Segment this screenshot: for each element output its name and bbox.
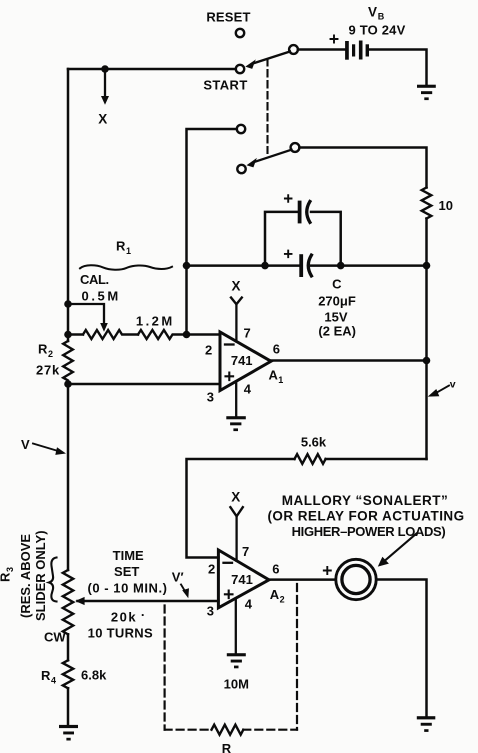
switch S1a RESET contact terminal — [236, 29, 244, 37]
svg-text:4: 4 — [51, 676, 56, 686]
switch S1a pivot terminal — [289, 45, 298, 54]
switch S1b upper contact terminal — [237, 125, 245, 133]
svg-text:1: 1 — [278, 375, 283, 385]
junction dot bus left — [183, 262, 191, 270]
op-amp A1 minus sign — [225, 343, 234, 345]
label SLIDER ONLY) (rotated) — [33, 530, 48, 621]
arrow V to left rail — [33, 444, 66, 455]
resistor R (feedback) — [212, 725, 244, 735]
arrow V' to pin3 wire — [181, 585, 189, 599]
junction dot R1 / pin2 — [183, 331, 191, 339]
svg-text:X: X — [98, 112, 107, 127]
pin label 4 (A1) — [244, 381, 252, 396]
svg-text:V: V — [368, 5, 377, 20]
switch S1b arm — [247, 150, 292, 168]
label VB 9 TO 24V — [348, 5, 405, 38]
svg-text:R: R — [41, 668, 51, 683]
svg-text:X: X — [231, 279, 240, 294]
svg-text:R: R — [38, 342, 48, 357]
label V annotation (left rail) — [21, 437, 30, 452]
label CAL. 0.5M — [80, 272, 121, 303]
wire C bus — [187, 264, 427, 267]
svg-text:1: 1 — [126, 246, 131, 256]
svg-text:X: X — [231, 490, 240, 505]
label R1 — [116, 239, 131, 257]
label TIME SET (0 - 10 MIN.) — [87, 548, 167, 596]
wire A2 pin 4 to ground — [235, 599, 237, 654]
svg-text:A: A — [270, 587, 280, 602]
op-amp A2 — [218, 550, 269, 608]
ground (A2 pin 4) — [227, 653, 246, 668]
wiper arrow of R3 — [75, 597, 84, 605]
svg-text:V′: V′ — [172, 570, 184, 585]
wire R3 to R4 — [67, 634, 70, 660]
svg-text:9 TO 24V: 9 TO 24V — [348, 23, 405, 38]
label X above A1 — [231, 279, 240, 294]
capacitor C lower — [301, 255, 311, 276]
label START — [203, 77, 247, 92]
label V' annotation — [172, 570, 184, 585]
svg-text:v: v — [450, 379, 456, 391]
right rail (bus to 5.6k row) — [425, 266, 428, 459]
svg-text:15V: 15V — [324, 309, 347, 324]
capacitor C upper — [300, 202, 310, 223]
label 6.8k — [81, 668, 107, 683]
op-amp A2 plus sign — [225, 591, 233, 599]
svg-text:(OR RELAY FOR ACTUATING: (OR RELAY FOR ACTUATING — [267, 509, 464, 524]
junction dot bus right — [423, 262, 431, 270]
node X junction dot — [101, 65, 109, 73]
svg-text:20k: 20k — [111, 609, 137, 624]
wire R4 to ground — [67, 688, 70, 725]
brace for R3 upper part — [49, 558, 57, 602]
left rail mid section — [67, 384, 70, 570]
wire S1b upper contact down to C bus — [187, 129, 237, 266]
resistor 5.6k — [295, 454, 326, 464]
wire S1a pivot to battery + — [298, 48, 345, 51]
pin label 6 (A1) — [273, 342, 280, 357]
svg-text:2: 2 — [208, 561, 215, 576]
switch S1b lower contact terminal (open) — [237, 165, 245, 173]
svg-text:(RES. ABOVE: (RES. ABOVE — [18, 534, 33, 618]
svg-text:CW: CW — [44, 630, 66, 645]
svg-text:3: 3 — [207, 389, 214, 404]
dashed feedback branch left — [164, 606, 166, 730]
left rail top section — [67, 69, 70, 341]
capacitor C lower plus sign — [285, 251, 292, 258]
svg-text:6: 6 — [272, 561, 279, 576]
label R2 27k — [36, 342, 60, 378]
svg-text:TIME: TIME — [113, 548, 144, 563]
svg-text:0.5M: 0.5M — [82, 289, 121, 304]
capacitor C upper plus sign — [285, 195, 292, 202]
svg-text:27k: 27k — [36, 363, 60, 378]
ground (R4) — [59, 725, 78, 741]
switch S1a START contact terminal — [236, 65, 244, 73]
svg-text:3: 3 — [5, 567, 15, 572]
svg-text:R: R — [116, 239, 126, 254]
label 10 — [439, 198, 453, 213]
switch S1b pivot terminal — [291, 143, 300, 152]
wire A1 pin 7 to X — [235, 304, 237, 341]
wire 10 ohm to bus — [425, 219, 428, 266]
svg-text:4: 4 — [244, 381, 252, 396]
ground (sonalert) — [417, 716, 436, 732]
junction dot cap branch left — [261, 262, 269, 270]
label 20k 10 TURNS — [88, 608, 153, 641]
node X arrow — [101, 69, 109, 105]
label R (feedback) — [222, 741, 232, 753]
label MALLORY SONALERT — [267, 493, 464, 539]
wire A2 pin 3 from R3 wiper — [78, 600, 219, 603]
label R3 (rotated) — [0, 567, 15, 582]
pin label 2 (A2) — [208, 561, 215, 576]
svg-text:10: 10 — [439, 198, 453, 213]
sonalert DC buzzer — [336, 559, 376, 599]
svg-text:A: A — [269, 367, 279, 382]
wire R1 node down from bus — [185, 266, 188, 335]
wire wiper feed — [68, 304, 104, 325]
resistor R2 — [63, 341, 73, 384]
label v annotation — [450, 379, 456, 391]
label RESET — [206, 9, 250, 24]
arrow v to rail — [428, 386, 449, 397]
potentiometer R3 20k 10 turns — [63, 570, 73, 634]
svg-text:V: V — [21, 437, 30, 452]
wire A1 output pin 6 — [271, 359, 427, 362]
dashed gang link S1a-S1b — [266, 59, 268, 153]
wire A2 pin 7 to X — [235, 516, 237, 561]
svg-text:7: 7 — [244, 325, 251, 340]
svg-text:START: START — [203, 77, 247, 92]
op-amp A1 plus sign — [226, 373, 234, 381]
battery VB — [345, 41, 369, 60]
svg-text:741: 741 — [231, 353, 253, 368]
junction dot A1 out / right rail — [423, 357, 431, 365]
label A2 — [270, 587, 285, 605]
wire sonalert to ground — [378, 580, 427, 717]
resistor R4 6.8k — [63, 660, 73, 688]
wiper arrow of CAL pot — [100, 323, 108, 332]
pin label 3 (A2) — [207, 603, 214, 618]
wire upper capacitor branch — [265, 212, 341, 266]
wire A1 pin 4 to ground — [235, 382, 237, 418]
label 10M — [224, 677, 249, 692]
svg-text:SLIDER ONLY): SLIDER ONLY) — [33, 530, 48, 621]
junction dot pin3 node — [64, 380, 72, 388]
svg-text:270μF: 270μF — [318, 294, 356, 309]
svg-text:2: 2 — [48, 349, 53, 359]
svg-text:10 TURNS: 10 TURNS — [88, 625, 153, 640]
label 1.2M — [136, 313, 175, 328]
label 5.6k — [301, 435, 327, 450]
resistor 10 — [422, 188, 432, 219]
wire A2 output pin 6 to sonalert — [269, 578, 335, 581]
label R4 — [41, 668, 56, 686]
wire to A1 pin 3 — [68, 383, 220, 386]
op-amp A1 — [220, 332, 271, 391]
plus sign sonalert — [324, 567, 331, 574]
svg-text:R: R — [0, 572, 13, 582]
svg-text:HIGHER–POWER LOADS): HIGHER–POWER LOADS) — [292, 524, 446, 539]
label X above A2 — [231, 490, 240, 505]
svg-text:R: R — [222, 741, 232, 753]
label X (top left) — [98, 112, 107, 127]
svg-text:2: 2 — [205, 343, 212, 358]
pin label 7 (A2) — [242, 544, 249, 559]
svg-text:RESET: RESET — [206, 9, 250, 24]
wire battery - to ground — [369, 50, 427, 86]
wire S1b pivot to 10 ohm resistor — [299, 148, 426, 188]
dashed feedback branch bottom right — [243, 729, 297, 731]
label C 270uF 15V (2 EA) — [318, 276, 356, 338]
op-amp A2 minus sign — [224, 562, 233, 564]
node X arrowhead above A1 — [231, 298, 242, 305]
wire 5.6k row — [187, 459, 427, 558]
battery VB plus sign — [331, 36, 338, 43]
pin label 2 (A1) — [205, 343, 212, 358]
dashed feedback branch right — [296, 584, 298, 730]
svg-text:2: 2 — [280, 594, 285, 604]
pin label 3 (A1) — [207, 389, 214, 404]
wire to A1 pin 2 — [187, 333, 221, 336]
svg-text:MALLORY “SONALERT”: MALLORY “SONALERT” — [282, 493, 449, 508]
svg-text:C: C — [332, 276, 342, 291]
svg-text:5.6k: 5.6k — [301, 435, 327, 450]
svg-text:SET: SET — [114, 564, 139, 579]
junction dot wiper tap — [64, 300, 72, 308]
arrow label to sonalert — [378, 534, 417, 567]
pin label 7 (A1) — [244, 325, 251, 340]
ground (A1 pin 4) — [226, 416, 246, 431]
svg-text:B: B — [378, 12, 385, 22]
svg-text:10M: 10M — [224, 677, 249, 692]
svg-text:·: · — [141, 608, 145, 623]
svg-text:4: 4 — [245, 596, 253, 611]
svg-text:CAL.: CAL. — [80, 272, 109, 287]
svg-text:7: 7 — [242, 544, 249, 559]
node X arrowhead above A2 — [230, 507, 242, 516]
potentiometer CAL 0.5M — [68, 330, 138, 339]
svg-text:6: 6 — [273, 342, 280, 357]
svg-text:3: 3 — [207, 603, 214, 618]
svg-text:(2 EA): (2 EA) — [318, 323, 356, 338]
pin label 6 (A2) — [272, 561, 279, 576]
brace squiggle for R1 — [80, 265, 172, 269]
pin label 4 (A2) — [245, 596, 253, 611]
svg-text:6.8k: 6.8k — [81, 668, 107, 683]
junction dot pot left — [64, 331, 72, 339]
label 741 (A1) — [231, 353, 253, 368]
svg-text:1.2M: 1.2M — [136, 313, 175, 328]
dashed feedback branch bottom left — [165, 729, 212, 731]
label (RES. ABOVE (rotated) — [18, 534, 33, 618]
ground (battery) — [417, 85, 436, 100]
svg-text:741: 741 — [231, 572, 253, 587]
junction dot cap branch right — [337, 262, 345, 270]
label CW — [44, 630, 66, 645]
switch S1a arm (to START) — [245, 52, 290, 69]
label 741 (A2) — [231, 572, 253, 587]
label A1 — [269, 367, 284, 385]
svg-text:(0 - 10 MIN.): (0 - 10 MIN.) — [87, 581, 167, 596]
wire START contact to left rail — [68, 68, 236, 71]
resistor 1.2M — [138, 330, 187, 339]
